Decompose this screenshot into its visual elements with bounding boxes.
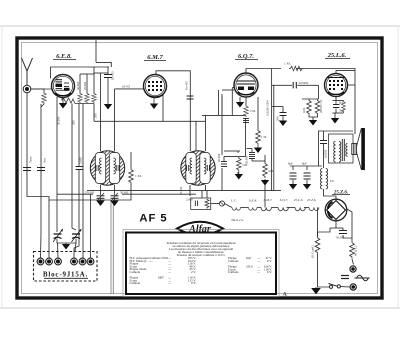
- ground osc: [107, 103, 109, 106]
- ground 25L6 a: [309, 120, 317, 126]
- wire antenna to 6E8 grid: [31, 88, 52, 90]
- svg-text:6.E.8.: 6.E.8.: [249, 199, 257, 203]
- wire speaker b+ down: [318, 130, 353, 132]
- resistor cathode 6E8: [62, 98, 75, 104]
- wire 6M7 grid from can1: [115, 88, 144, 90]
- svg-text:0 V.: 0 V.: [191, 281, 196, 285]
- capacitor cathode 25L6: [333, 105, 340, 108]
- tube 25Z6 rectifier: [325, 199, 347, 221]
- resistor 6Q7 cathode: [244, 105, 249, 117]
- coil f6E8: [249, 207, 258, 210]
- terminal plug1: [350, 266, 356, 272]
- bloc terminals: [37, 258, 94, 265]
- capacitor IF2b: [207, 165, 209, 171]
- svg-text:L.C.: L.C.: [230, 199, 237, 203]
- wire can2 bottoms: [189, 185, 191, 196]
- tube labels row: [56, 52, 347, 61]
- resistor 6Q7 plate load: [263, 162, 268, 178]
- svg-text:20.0000: 20.0000: [299, 81, 309, 85]
- wire 6Q7 plate to top: [246, 69, 281, 74]
- wire filament chain: [211, 203, 220, 205]
- svg-text:270.000: 270.000: [85, 190, 95, 194]
- svg-text:1 M.: 1 M.: [284, 62, 291, 66]
- capacitor terre: [23, 168, 31, 171]
- speaker cone: [361, 128, 365, 170]
- svg-text:25.L.6.: 25.L.6.: [327, 52, 347, 59]
- trimmer IF1b: [111, 193, 119, 201]
- svg-text:25L6: 25L6: [246, 265, 253, 269]
- page scan edges: [0, 25, 400, 27]
- wire ant resistor branch: [31, 89, 44, 92]
- svg-text:2.000: 2.000: [186, 198, 193, 202]
- table dots left: [168, 256, 171, 285]
- capacitor link can2: [187, 96, 194, 99]
- wire rectifier bottom: [335, 221, 337, 228]
- svg-text:50.000: 50.000: [120, 190, 129, 194]
- choke field coil: [320, 169, 327, 189]
- ground 6M7 cathode: [153, 97, 155, 104]
- ground 200 screen: [279, 121, 287, 127]
- svg-text:25.Z.6.: 25.Z.6.: [307, 198, 317, 202]
- svg-text:....: ....: [168, 281, 171, 285]
- capacitor ant2: [37, 168, 45, 171]
- tube label underlines: [53, 59, 350, 61]
- wire rc network under 6Q7: [221, 168, 223, 191]
- svg-text:Ant.: Ant.: [43, 157, 47, 163]
- svg-text:200: 200: [94, 113, 98, 118]
- ground 6Q7 cathode: [239, 99, 241, 102]
- svg-text:300: 300: [72, 120, 76, 125]
- coil primary: [334, 142, 341, 162]
- svg-text:200: 200: [276, 116, 280, 121]
- resistor 40ohm: [350, 241, 355, 259]
- ground trimmer2: [114, 198, 116, 200]
- wire B+ rail mid: [93, 104, 95, 122]
- wire 6E8 bottom drops: [56, 97, 58, 232]
- ground filter1: [289, 184, 297, 190]
- resistor osc2: [85, 93, 90, 104]
- svg-text:40.000: 40.000: [76, 81, 80, 90]
- labels filament: [230, 198, 316, 203]
- capacitor filter 2: [304, 173, 311, 179]
- symbol DC: [341, 276, 349, 279]
- svg-text:Ro 455: Ro 455: [185, 81, 189, 90]
- terminal plug2: [350, 284, 356, 290]
- lamp LC: [219, 201, 224, 206]
- resistor cord: [315, 236, 320, 254]
- svg-text:AF 5: AF 5: [139, 213, 167, 225]
- svg-text:25.000: 25.000: [83, 81, 87, 90]
- capacitor 20000 coupling: [293, 82, 296, 88]
- svg-text:6.M.7.: 6.M.7.: [264, 198, 273, 202]
- svg-text:6 V.: 6 V.: [267, 270, 272, 274]
- svg-text:6M7: 6M7: [158, 276, 164, 280]
- svg-text:½M.: ½M.: [242, 163, 248, 167]
- variable cap 1: [53, 230, 63, 243]
- wire 6Q7 cathode: [239, 97, 241, 100]
- wire AVC bus: [49, 199, 111, 201]
- resistor 25L6 b: [315, 99, 320, 115]
- resistor 25L6 a: [307, 99, 312, 115]
- wire pot bus: [264, 183, 266, 207]
- svg-text:25.000: 25.000: [179, 186, 183, 195]
- resistor osc3: [92, 93, 97, 104]
- capacitor 5000: [76, 167, 83, 170]
- wire 25L6 cathode drops: [309, 115, 318, 117]
- coil secondary: [346, 144, 348, 157]
- svg-text:50 V: 50 V: [339, 110, 344, 113]
- coil f6M7: [261, 207, 271, 210]
- table right column: [228, 256, 260, 274]
- ground filter2: [303, 184, 311, 190]
- capacitor IF1b: [117, 165, 119, 171]
- resistor osc1: [78, 93, 83, 104]
- svg-text:Fil.: Fil.: [330, 179, 335, 183]
- wire 6M7 plate top: [156, 71, 190, 151]
- wire choke to rectifier: [324, 189, 337, 200]
- svg-text:6.Q.7.: 6.Q.7.: [238, 53, 254, 60]
- wire B+ top to right: [296, 69, 355, 135]
- wire 25L6 screen/plate right: [348, 84, 355, 86]
- svg-text:6.Q.7.: 6.Q.7.: [280, 198, 289, 202]
- wire 6Q7 grid leak: [221, 94, 223, 155]
- wire osc resistor drops: [93, 67, 95, 93]
- symbol AC: [355, 275, 370, 281]
- svg-text:0 V.: 0 V.: [267, 259, 272, 263]
- svg-text:(R.Contl.): (R.Contl.): [311, 245, 315, 258]
- svg-text:Bloc-9J15A.: Bloc-9J15A.: [43, 271, 88, 279]
- svg-text:Tension du secteur continue à: Tension du secteur continue à 110 v.: [176, 253, 225, 257]
- svg-text:25.L.6.: 25.L.6.: [294, 198, 304, 202]
- border frame: [17, 38, 382, 298]
- core output: [342, 139, 344, 161]
- wire 6M7 screen drop: [162, 93, 164, 121]
- svg-text:50.000: 50.000: [57, 116, 61, 125]
- coil f25L6: [295, 207, 305, 210]
- ground 25L6 cathode: [331, 118, 339, 124]
- coil LC: [232, 207, 241, 210]
- ground 6E8: [62, 99, 64, 103]
- speaker voice coil: [352, 144, 357, 155]
- wire can1 feeds: [100, 73, 102, 151]
- wire filter rail: [290, 165, 322, 167]
- svg-text:8μF: 8μF: [339, 102, 344, 105]
- svg-text:50.000: 50.000: [336, 236, 345, 240]
- wire cap252: [247, 148, 253, 150]
- ground 1M grid: [257, 145, 259, 148]
- svg-text:....: ....: [257, 259, 260, 263]
- coil IF1a: [99, 158, 115, 174]
- capacitor 6Q7 cathode: [243, 119, 249, 123]
- wire antenna down: [27, 93, 49, 258]
- capacitor IF1a: [96, 165, 98, 171]
- bloc box: [34, 252, 98, 282]
- svg-text:6Q7: 6Q7: [246, 256, 252, 260]
- svg-text:Cathode: Cathode: [228, 270, 239, 274]
- transformer output box: [329, 134, 354, 163]
- svg-text:A.: A.: [282, 293, 288, 298]
- tube 25L6: [325, 74, 348, 97]
- table left column: [130, 256, 169, 285]
- ground plate load: [261, 180, 269, 186]
- table box: [126, 233, 276, 295]
- coil f25Z6: [309, 207, 319, 210]
- capacitor rectifier: [339, 231, 347, 234]
- svg-text:Cathode: Cathode: [130, 270, 141, 274]
- svg-text:8μF: 8μF: [302, 162, 307, 166]
- wire 2000 box links: [206, 191, 208, 198]
- svg-text:6.M.7: 6.M.7: [147, 54, 163, 61]
- svg-text:¼M.: ¼M.: [268, 169, 274, 173]
- capacitor osc: [104, 75, 112, 78]
- coil f6Q7: [278, 207, 288, 210]
- resistor ant: [42, 92, 47, 104]
- tube 6Q7: [234, 73, 258, 97]
- wire 6E8 top loops: [51, 67, 110, 79]
- svg-text:8μF: 8μF: [288, 162, 293, 166]
- svg-text:1 M.: 1 M.: [261, 135, 267, 139]
- antenna terminal: [23, 85, 31, 93]
- tube 6M7: [144, 75, 167, 98]
- coil IF2a: [190, 158, 206, 174]
- svg-text:2 V.: 2 V.: [191, 270, 196, 274]
- resistor 1M grid: [256, 129, 261, 145]
- svg-text:....: ....: [168, 270, 171, 274]
- antenna: [22, 58, 33, 85]
- svg-text:1 M.: 1 M.: [135, 174, 142, 178]
- ground diode load: [238, 172, 240, 175]
- svg-text:2 M.: 2 M.: [250, 109, 256, 113]
- capacitor 200 screen: [280, 113, 287, 116]
- ground trimmer1: [100, 198, 102, 200]
- wire terre down: [40, 104, 43, 258]
- capacitor 50000 coupling: [249, 153, 255, 159]
- table header: [166, 241, 235, 257]
- capacitor 40000 grid: [221, 162, 227, 167]
- svg-text:Cathode: Cathode: [228, 259, 239, 263]
- svg-text:Ro 455: Ro 455: [111, 71, 115, 80]
- tube 6E8: [52, 75, 75, 98]
- capacitor filter 1: [290, 173, 297, 179]
- switch: [329, 285, 332, 288]
- resistor 2000: [205, 199, 209, 209]
- svg-text:6.E.8.: 6.E.8.: [56, 53, 72, 60]
- box 2000: [191, 198, 211, 210]
- logo alfar: [177, 222, 223, 235]
- ground bottom: [315, 287, 317, 288]
- svg-text:40.000: 40.000: [217, 153, 221, 162]
- svg-text:200 Ω 1 W: 200 Ω 1 W: [319, 100, 323, 113]
- svg-text:5.000: 5.000: [79, 157, 83, 164]
- variable cap 2: [72, 230, 82, 243]
- capacitor tone 0,05: [320, 141, 327, 144]
- wire can2 to 6Q7 grid: [232, 87, 236, 89]
- svg-text:1R 455: 1R 455: [122, 86, 131, 89]
- ground varcaps: [62, 244, 70, 250]
- trimmer IF1a: [97, 193, 105, 201]
- capacitor 2000: [195, 201, 197, 207]
- resistor cathode 25L6: [342, 101, 346, 113]
- resistor diode load: [237, 157, 242, 171]
- svg-text:Terre: Terre: [29, 156, 33, 163]
- resistor 1M top: [289, 66, 303, 71]
- svg-text:....: ....: [257, 270, 260, 274]
- capacitor IF2a: [187, 165, 189, 171]
- wires varcap to gnd: [57, 239, 76, 259]
- svg-text:Cathode: Cathode: [130, 281, 141, 285]
- resistor 1M AVC: [129, 168, 134, 184]
- wire rcord to switch: [318, 254, 330, 287]
